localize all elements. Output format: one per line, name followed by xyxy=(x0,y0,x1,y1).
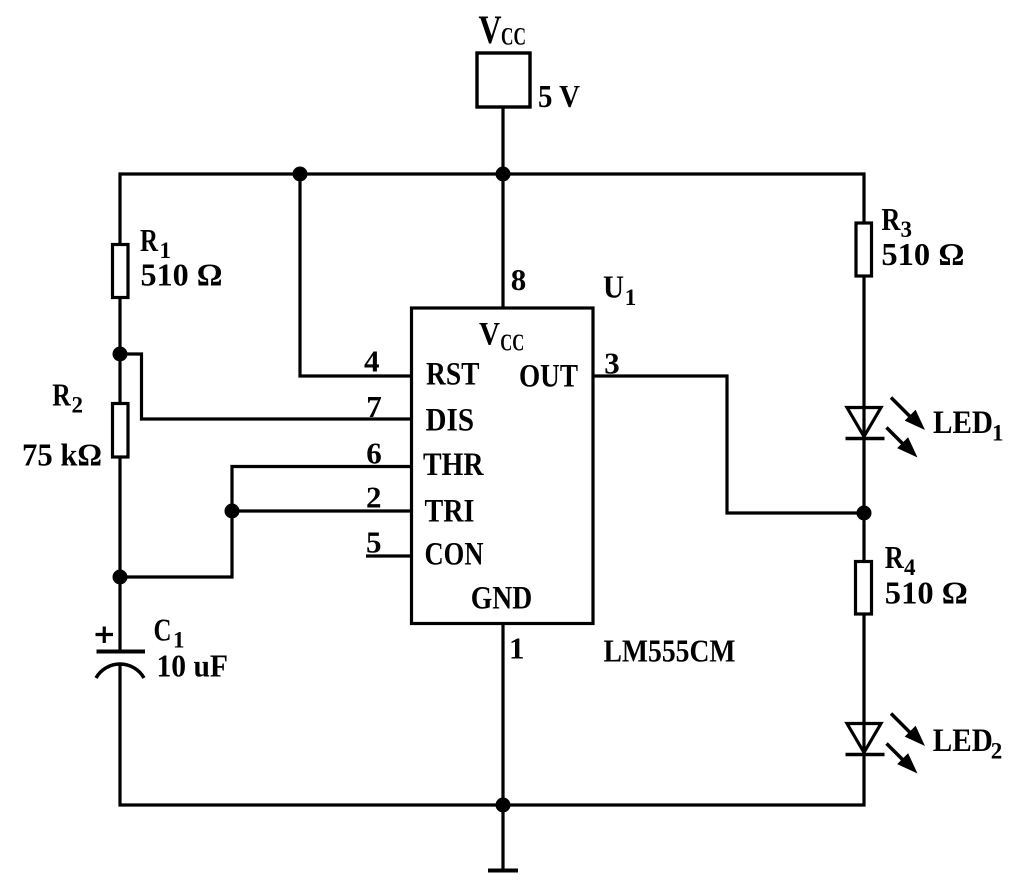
wire OUT pin 3 to LED1-R4 node xyxy=(593,376,864,513)
resistor R2 body xyxy=(113,404,129,458)
svg-text:V: V xyxy=(479,7,502,52)
svg-text:2: 2 xyxy=(366,479,382,514)
resistor R1 body xyxy=(113,245,129,298)
LED2 arrowheads xyxy=(905,726,925,746)
svg-text:R: R xyxy=(885,539,905,575)
junction node ground xyxy=(496,798,511,813)
svg-text:DIS: DIS xyxy=(426,403,475,439)
svg-text:75 kΩ: 75 kΩ xyxy=(22,437,102,473)
junction node LED1-R4 xyxy=(857,506,872,521)
svg-text:8: 8 xyxy=(511,262,527,297)
svg-text:4: 4 xyxy=(364,344,380,379)
svg-text:5: 5 xyxy=(366,525,382,560)
svg-text:OUT: OUT xyxy=(519,359,578,395)
svg-text:510 Ω: 510 Ω xyxy=(881,236,964,272)
capacitor C1 plates xyxy=(97,650,146,654)
LED1 emission arrows xyxy=(887,398,912,445)
svg-text:5 V: 5 V xyxy=(538,78,580,114)
svg-text:LED: LED xyxy=(933,723,993,759)
svg-text:V: V xyxy=(479,317,500,353)
wire GND pin 1 to ground xyxy=(501,624,504,872)
svg-text:1: 1 xyxy=(509,630,525,665)
svg-text:510 Ω: 510 Ω xyxy=(141,257,223,293)
LED1 diode symbol xyxy=(847,408,881,437)
svg-text:LM555CM: LM555CM xyxy=(604,633,736,669)
svg-text:2: 2 xyxy=(991,738,1003,763)
LED1 arrowheads xyxy=(905,410,925,430)
svg-text:7: 7 xyxy=(366,389,382,424)
svg-text:2: 2 xyxy=(72,393,84,418)
junction node TRI xyxy=(225,504,240,519)
svg-text:510 Ω: 510 Ω xyxy=(885,575,968,611)
wire DIS pin 7 to R1-R2 node xyxy=(119,354,414,419)
wire TRI pin 2 xyxy=(232,509,413,512)
svg-text:CC: CC xyxy=(501,24,526,51)
svg-text:1: 1 xyxy=(625,285,637,310)
wire node to RST pin 4 xyxy=(300,174,413,376)
svg-text:TRI: TRI xyxy=(425,494,475,530)
svg-text:1: 1 xyxy=(992,421,1004,446)
capacitor C1 polarity plus xyxy=(96,627,114,644)
svg-text:3: 3 xyxy=(604,345,620,380)
LED2 diode symbol xyxy=(847,724,881,753)
svg-text:U: U xyxy=(603,269,624,305)
wire outer loop (top rail, left rail, right rail, bottom rail) xyxy=(120,174,864,805)
svg-text:C: C xyxy=(154,612,172,648)
LED2 emission arrows xyxy=(887,714,912,761)
svg-text:CON: CON xyxy=(425,537,484,573)
resistor R3 body xyxy=(856,223,872,276)
op-amp/IC U1 box LM555CM xyxy=(412,308,594,624)
svg-text:R: R xyxy=(140,222,159,258)
svg-text:R: R xyxy=(52,377,71,413)
wire VCC box to pin 8 xyxy=(501,107,504,308)
svg-text:6: 6 xyxy=(366,436,382,471)
resistor R4 body xyxy=(856,562,872,615)
svg-text:RST: RST xyxy=(426,357,480,393)
wire THR pin 6 to C1 node xyxy=(119,467,414,578)
wire CON pin 5 stub xyxy=(366,554,413,557)
junction node top-left rail xyxy=(293,167,308,182)
junction node R1-R2 xyxy=(113,347,128,362)
ground symbol xyxy=(488,869,518,873)
svg-text:R: R xyxy=(881,201,901,237)
power VCC symbol box xyxy=(477,53,530,107)
svg-text:THR: THR xyxy=(423,447,484,483)
svg-text:CC: CC xyxy=(500,331,524,357)
svg-text:LED: LED xyxy=(933,405,993,441)
junction node C1 top xyxy=(113,570,128,585)
svg-text:10 uF: 10 uF xyxy=(157,648,229,684)
svg-text:GND: GND xyxy=(471,580,533,616)
junction node VCC rail xyxy=(496,167,511,182)
